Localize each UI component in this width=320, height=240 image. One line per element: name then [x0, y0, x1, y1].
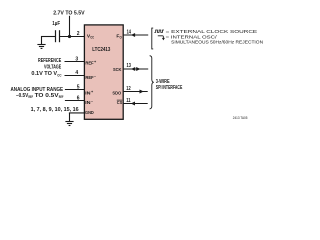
svg-text:0.1V TO V: 0.1V TO V [31, 71, 57, 77]
svg-text:REF: REF [59, 95, 64, 99]
wire pin12 SDO [123, 91, 148, 93]
node junction supply/cap [68, 35, 71, 38]
wire pin2 segment gnd-to-cap [41, 36, 55, 38]
svg-text:VOLTAGE: VOLTAGE [44, 64, 61, 70]
svg-text:= EXTERNAL CLOCK SOURCE: = EXTERNAL CLOCK SOURCE [166, 29, 258, 34]
ground GND1 bars [37, 44, 45, 46]
arrow SCK left [131, 67, 135, 71]
wire GND horizontal [69, 112, 85, 114]
wire pin2 segment cap-to-chip [60, 36, 85, 38]
svg-text:5: 5 [77, 85, 80, 91]
svg-text:REF: REF [28, 95, 33, 99]
brace SPI group [150, 56, 154, 109]
svg-text:1, 7, 8, 9, 10, 15, 16: 1, 7, 8, 9, 10, 15, 16 [31, 107, 79, 113]
svg-text:2413 TA05: 2413 TA05 [233, 116, 248, 120]
svg-text:14: 14 [127, 29, 132, 35]
symbol square wave [154, 30, 164, 32]
svg-text:6: 6 [77, 96, 80, 102]
svg-text:GND: GND [85, 110, 94, 116]
wire pin5 [65, 89, 85, 91]
arrow into FO [131, 33, 135, 37]
IC U1 LTC2413 body [84, 25, 123, 119]
capacitor C1 1uF plates [55, 30, 57, 42]
svg-text:SCK: SCK [113, 67, 122, 73]
arrow SCK right [136, 67, 140, 71]
wire pin6 [65, 100, 85, 102]
ground GND1 stem [41, 36, 43, 44]
svg-text:–0.5V: –0.5V [16, 93, 29, 99]
arrow SDO right [140, 90, 144, 94]
arrow CS left [131, 102, 135, 106]
svg-text:CC: CC [90, 35, 94, 39]
symbol internal osc arrow [158, 36, 164, 39]
svg-text:CC: CC [57, 73, 62, 77]
svg-text:13: 13 [127, 63, 132, 69]
wire GND vertical [69, 113, 71, 121]
svg-text:REFERENCE: REFERENCE [38, 58, 61, 64]
svg-text:1µF: 1µF [52, 21, 60, 27]
svg-text:CS: CS [117, 100, 123, 106]
wire pin14 FO [123, 34, 148, 36]
wire pin11 CS [123, 103, 148, 105]
wire pin4 [65, 75, 85, 77]
wire pin13 SCK [123, 68, 148, 70]
svg-text:SPI INTERFACE: SPI INTERFACE [156, 85, 183, 91]
bracket clock legend [152, 28, 153, 49]
svg-text:SDO: SDO [112, 91, 121, 97]
svg-text:4: 4 [75, 70, 78, 76]
svg-text:REF: REF [85, 75, 93, 81]
svg-text:12: 12 [126, 86, 131, 92]
wire supply vertical [69, 16, 71, 37]
svg-text:2: 2 [77, 31, 80, 37]
svg-text:–: – [94, 74, 96, 78]
svg-text:TO 0.5V: TO 0.5V [35, 93, 59, 99]
ground GND2 bars [65, 121, 73, 123]
svg-text:SIMULTANEOUS 50Hz/60Hz REJECTI: SIMULTANEOUS 50Hz/60Hz REJECTION [171, 40, 263, 45]
svg-text:3: 3 [75, 56, 78, 62]
wire pin3 [65, 61, 85, 63]
svg-text:LTC2413: LTC2413 [92, 47, 110, 53]
svg-text:–: – [91, 100, 93, 104]
svg-text:REF: REF [85, 61, 93, 67]
svg-text:11: 11 [126, 98, 131, 104]
